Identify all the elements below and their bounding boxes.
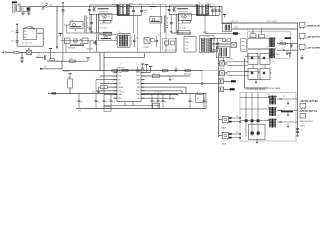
module outline lower right — [240, 92, 296, 141]
svg-text:KA431: KA431 — [222, 143, 227, 146]
svg-text:TH: TH — [30, 26, 33, 28]
svg-text:E 470u: E 470u — [120, 92, 125, 94]
module frame stage2 aux — [163, 39, 177, 51]
capacitor C53 dark — [251, 132, 254, 135]
diode D1 stage1 — [130, 6, 131, 7]
resistor R16 — [162, 69, 168, 71]
module box relay — [249, 124, 266, 139]
capacitor C7 bank — [157, 94, 159, 100]
svg-text:E4: E4 — [165, 102, 167, 104]
svg-text:S GN: S GN — [185, 49, 188, 51]
svg-text:CY3: CY3 — [11, 41, 14, 43]
resistor R3 stage1 — [103, 32, 112, 35]
wire T8 in — [240, 97, 269, 99]
capacitor C32 stage3 — [133, 34, 135, 47]
svg-text:TMR: TMR — [136, 94, 140, 96]
wire dcdc out2 — [277, 49, 298, 51]
wire CN4 out a — [227, 71, 248, 73]
wire CN8 out a — [232, 133, 240, 135]
capacitor E3 bank — [151, 94, 153, 100]
wire U1 row4 nest — [145, 90, 183, 92]
resistor R18a — [223, 39, 226, 42]
module U8 primary box stage3 — [99, 34, 117, 40]
wire U11 drop a — [65, 44, 67, 53]
svg-text:+12V DC OUT 8A: +12V DC OUT 8A — [299, 100, 318, 103]
wire stage3 vert b — [103, 52, 105, 93]
capacitor C8 — [175, 67, 177, 70]
wire T9 out — [277, 110, 298, 112]
connector CON2 remote — [2, 52, 4, 54]
wire grid in1 — [245, 55, 261, 57]
svg-text:UVP: UVP — [136, 79, 140, 81]
svg-text:X1: X1 — [101, 87, 103, 89]
power bar T2 — [142, 64, 144, 67]
wire stage3 right vert — [175, 38, 177, 53]
inductor L5 hatched — [241, 39, 246, 52]
transistor Q1 stage1 — [93, 7, 95, 12]
capacitor C4 — [20, 56, 23, 58]
connector P5b box — [300, 103, 306, 108]
svg-text:TL: TL — [38, 54, 40, 56]
svg-text:C5: C5 — [81, 102, 83, 104]
wire CN7 out a — [232, 117, 240, 119]
svg-text:R41: R41 — [236, 132, 239, 134]
connector CN7 cluster — [222, 116, 228, 122]
resistor R31 — [258, 34, 264, 38]
ground G3 — [21, 59, 23, 61]
inductor L4 bar stage3 — [101, 37, 112, 40]
wire grid link a — [252, 65, 254, 69]
diode D11 pair dark — [285, 37, 291, 39]
switch SW3 box — [231, 43, 237, 48]
ground G5 — [255, 80, 257, 83]
wire T9 in — [240, 108, 269, 110]
svg-text:Q6: Q6 — [250, 32, 252, 34]
inductor L1 bar stage1 — [98, 7, 109, 10]
wire T11 in — [240, 120, 269, 122]
resistor RL2 — [68, 79, 73, 88]
svg-text:E 1000u/10V: E 1000u/10V — [92, 92, 100, 94]
module box REG4 — [260, 69, 270, 80]
svg-text:D13: D13 — [283, 107, 286, 109]
svg-text:SB560: SB560 — [128, 4, 132, 6]
capacitor CX1 line filter — [17, 5, 20, 11]
capacitor C12 stage1 — [132, 7, 134, 33]
transformer T3 — [118, 34, 131, 48]
connector P2 — [299, 22, 305, 27]
svg-text:- - 12V RETURN SENSE - -: - - 12V RETURN SENSE - - — [244, 89, 268, 91]
svg-text:250V: 250V — [49, 4, 52, 6]
wire U1 left pin2 — [100, 75, 114, 77]
optocoupler U2 frame stage1 — [99, 14, 112, 21]
node T1 sec dots — [128, 5, 131, 8]
svg-text:C60: C60 — [272, 62, 275, 64]
capacitor C26 stage2 — [170, 14, 172, 29]
svg-text:R21: R21 — [158, 35, 161, 37]
svg-text:100n: 100n — [139, 4, 142, 6]
resistor R25 bank box — [196, 95, 204, 103]
svg-text:CY: CY — [56, 10, 59, 12]
svg-text:R44: R44 — [44, 66, 47, 68]
svg-text:VDD: VDD — [118, 72, 122, 74]
capacitor C10 stage1 — [88, 8, 91, 10]
wire rail +12V — [227, 22, 298, 24]
svg-text:16: 16 — [120, 63, 122, 65]
transformer T8 — [269, 96, 271, 105]
capacitor C1 pair — [16, 30, 19, 32]
svg-text:D FB: D FB — [185, 45, 188, 47]
wire U1 pin VCC — [145, 71, 151, 73]
svg-text:OPP: OPP — [136, 76, 140, 78]
resistor R21 at U1 — [100, 85, 107, 88]
wire dcdc in1 — [248, 37, 268, 39]
ground G8 — [287, 101, 289, 104]
diode D6 stage2 — [184, 14, 186, 17]
wire T11 out — [277, 121, 298, 123]
wire psons ext — [40, 51, 94, 53]
module U5 primary box stage2 — [169, 5, 197, 15]
capacitor C24 stage2 — [218, 7, 220, 16]
svg-text:FAN CONTROL: FAN CONTROL — [300, 120, 313, 123]
svg-text:+5VSB 2A RTN: +5VSB 2A RTN — [306, 25, 320, 28]
inductor L2 stage1 — [150, 5, 155, 8]
wire CN3 out a — [227, 61, 248, 63]
wire stage2-stage4 link — [175, 7, 177, 14]
module U5A bias box stage2 — [150, 17, 162, 24]
wire stage2 fb vert b — [177, 14, 179, 33]
resistor RL1 — [152, 74, 159, 77]
resistor R7 stage2 — [177, 31, 190, 35]
svg-text:R9 1k: R9 1k — [179, 23, 183, 25]
transformer T2 aux winding — [163, 16, 165, 33]
connector P7 small — [300, 113, 306, 118]
wire stage2 sec bottom — [209, 15, 220, 17]
wire dcdc out1 — [277, 43, 298, 45]
wire stage3 bottom link — [104, 57, 145, 59]
node T4 output dots — [212, 39, 215, 42]
ground G11 — [297, 133, 299, 136]
svg-text:LM7812 REG: LM7812 REG — [270, 54, 280, 56]
svg-text:C3 330u 200V: C3 330u 200V — [22, 42, 33, 44]
resistor R30 — [250, 34, 256, 38]
wire PS-ON rail1 — [47, 60, 88, 62]
svg-text:T2: T2 — [198, 2, 200, 4]
svg-text:PC817: PC817 — [144, 47, 150, 49]
resistor R12 — [50, 59, 55, 61]
switch SW2 box — [26, 50, 31, 54]
wire rail12 stub — [222, 22, 227, 24]
capacitor C6 bank — [110, 94, 112, 100]
transistor Q4 stage3 circle — [151, 38, 155, 42]
power bar +5V tap — [69, 74, 71, 77]
connector arrow left — [48, 93, 49, 94]
svg-text:PGO: PGO — [136, 91, 140, 93]
svg-text:FB 24V SENSE: FB 24V SENSE — [269, 88, 282, 90]
svg-text:T3: T3 — [119, 32, 121, 34]
svg-text:D12: D12 — [283, 96, 286, 98]
svg-text:T7: T7 — [266, 46, 268, 48]
wire right bus mid — [218, 53, 220, 137]
svg-text:R20: R20 — [165, 45, 168, 47]
resistor R13 on rail — [69, 60, 75, 62]
svg-text:Q8: Q8 — [196, 98, 198, 100]
svg-text:R40: R40 — [236, 116, 239, 118]
svg-text:PC817: PC817 — [220, 68, 225, 70]
ground G7 — [97, 90, 99, 92]
svg-text:U4 TL431: U4 TL431 — [100, 28, 107, 30]
capacitor C15 stage1 — [89, 14, 91, 33]
capacitor C35 standby — [216, 38, 218, 52]
transformer T10 boxed on rail — [222, 24, 231, 32]
svg-text:SB560: SB560 — [207, 4, 211, 6]
svg-text:E1: E1 — [98, 102, 100, 104]
wire dcdc drop d — [244, 58, 246, 88]
power bar standby top — [224, 15, 226, 18]
module U11 bias cluster stage3 — [65, 38, 71, 44]
optocoupler U6 frame stage2 — [179, 14, 192, 21]
svg-text:47uF/50V: 47uF/50V — [184, 73, 192, 75]
svg-text:F1 T5A: F1 T5A — [42, 2, 49, 5]
svg-text:T4: T4 — [203, 36, 205, 38]
svg-text:DC-DC CONV: DC-DC CONV — [266, 21, 278, 23]
transformer T1 — [116, 4, 118, 15]
wire U1 left pin5 — [107, 86, 113, 88]
fuse F1 — [42, 6, 43, 7]
connector CN4 cluster — [220, 71, 225, 76]
resistor R18b — [227, 39, 230, 42]
capacitor CY1 dark — [27, 7, 30, 10]
capacitor E4 bank — [162, 94, 164, 100]
wire AC line to fuse — [30, 6, 42, 8]
transistor Q2 stage2 — [172, 7, 174, 12]
inductor L3 bar stage2 — [177, 7, 188, 10]
svg-text:1000u: 1000u — [143, 10, 147, 12]
diode D7 stage3 — [105, 36, 108, 39]
transformer T11 — [269, 119, 271, 128]
svg-text:E 2200u/10V: E 2200u/10V — [154, 92, 162, 94]
wire U1 row7 nest — [169, 94, 171, 101]
transformer T5 boxed standby — [217, 46, 231, 57]
transistor Q3 stage3 — [94, 40, 96, 45]
wire CN4 out b — [227, 74, 248, 76]
connector P4 — [299, 44, 305, 49]
earth E2 arrow — [16, 24, 19, 26]
wire bridge loop — [42, 29, 44, 46]
wire bottom rail y70 — [62, 70, 202, 72]
wire lowright drop a — [245, 92, 247, 136]
svg-text:Q6: Q6 — [251, 36, 253, 38]
svg-text:+24V 5A RTN: +24V 5A RTN — [306, 36, 320, 39]
wire stage2 fb bottom — [171, 32, 191, 34]
wire CN7 out b — [232, 121, 240, 123]
transformer T2 — [195, 4, 197, 15]
wire U1 left pin4 — [100, 82, 114, 84]
svg-text:C32: C32 — [135, 38, 138, 40]
svg-text:BD1: BD1 — [24, 34, 27, 36]
capacitor CY2 — [62, 9, 65, 11]
svg-text:T8: T8 — [267, 94, 269, 96]
capacitor E5 bank — [203, 94, 205, 100]
wire bridge out right — [37, 32, 43, 34]
svg-text:R13: R13 — [70, 58, 73, 60]
svg-text:5VSB: 5VSB — [229, 58, 233, 60]
wire rail +5V — [232, 28, 298, 30]
wire U1 left pin6 — [96, 90, 114, 92]
svg-text:U1 ATX-SV: U1 ATX-SV — [116, 67, 125, 70]
wire stage3 vert a — [99, 52, 101, 70]
node stage3 aux dots — [79, 38, 82, 41]
resistor R15 — [122, 69, 128, 71]
wire cap bank gnd rail — [76, 108, 206, 110]
svg-text:C7: C7 — [160, 102, 162, 104]
wire bank right vert — [205, 94, 207, 109]
ground G10 — [256, 140, 258, 143]
transistor Q5 — [43, 55, 45, 60]
wire U2A in — [64, 24, 70, 26]
svg-text:U10: U10 — [185, 39, 188, 41]
wire standby out bot — [210, 49, 217, 51]
svg-text:KA431: KA431 — [222, 127, 227, 130]
module frame line C — [165, 4, 167, 52]
connector CN8 cluster — [222, 132, 228, 138]
wire CN8 out b — [232, 137, 240, 139]
svg-text:VCC: VCC — [136, 72, 140, 74]
thermistor TH1 arc — [24, 27, 33, 29]
diode D12 — [280, 98, 281, 100]
transformer T1 aux winding — [84, 16, 86, 33]
node cluster entries — [239, 117, 241, 118]
svg-text:AC -: AC - — [24, 36, 28, 39]
diode D5 stage1 — [105, 14, 107, 17]
wire bus B+ vertical — [56, 7, 58, 47]
resistor R1 stage1 fb — [103, 20, 111, 23]
svg-text:R8 1k: R8 1k — [100, 23, 104, 25]
connector CN5 — [219, 79, 224, 84]
capacitor C54 dark — [257, 132, 260, 135]
resistor R32 — [280, 42, 286, 44]
svg-text:C11: C11 — [107, 16, 110, 18]
svg-text:470u: 470u — [212, 5, 215, 7]
svg-text:CX1: CX1 — [18, 3, 21, 5]
module box REG2 — [260, 54, 270, 65]
svg-text:U7 TL431: U7 TL431 — [179, 28, 186, 30]
wire U11 row — [61, 40, 95, 42]
wire stage3 bottom — [94, 51, 176, 53]
module box REG3 — [248, 69, 258, 80]
wire aux rail y33.5 — [205, 33, 240, 35]
svg-text:V5: V5 — [118, 79, 120, 81]
ground at CX1 — [22, 12, 24, 14]
resistor R5 stage2 fb — [183, 20, 191, 23]
svg-text:FPO: FPO — [118, 98, 122, 100]
wire stage1 fb bottom — [92, 32, 112, 34]
svg-text:R1: R1 — [103, 21, 105, 23]
capacitor C50 dark — [245, 119, 248, 122]
diode D13 — [280, 110, 281, 112]
ic U1 supervisor — [117, 70, 141, 101]
capacitor E1 bank — [95, 94, 97, 100]
capacitor C20 stage2 — [168, 8, 171, 10]
capacitor C15 stage1 — [91, 14, 93, 29]
svg-text:9: 9 — [136, 63, 137, 65]
power bar VCC1 — [146, 65, 148, 73]
svg-text:+12V +5V: +12V +5V — [230, 21, 238, 23]
svg-text:J2: J2 — [297, 19, 299, 21]
module frame line A — [137, 16, 139, 52]
transformer T7 — [268, 48, 270, 58]
svg-text:PS-ON: PS-ON — [64, 71, 70, 73]
wire stage1 fb vert a — [96, 14, 98, 33]
capacitor C57 small box — [153, 103, 160, 108]
wire RL2 down — [69, 76, 71, 79]
wire U1 left pin3 — [96, 79, 114, 81]
svg-text:AC +: AC + — [24, 30, 28, 33]
capacitor C51 dark — [251, 119, 254, 122]
svg-text:C55: C55 — [300, 130, 303, 132]
node row1 tee — [170, 76, 171, 77]
earth E1 arrow — [62, 2, 65, 4]
power bar +5VSB — [50, 49, 52, 52]
capacitor C40 — [290, 44, 292, 48]
wire U1 row5 nest — [145, 94, 179, 96]
module box REG1 — [248, 54, 258, 65]
svg-text:R32: R32 — [281, 41, 284, 43]
capacitor C8 bank — [189, 94, 191, 100]
svg-text:SW1: SW1 — [42, 9, 46, 11]
wire stage1 sec bottom — [129, 15, 141, 17]
capacitor C55 — [296, 127, 299, 129]
wire U11 drop b — [89, 41, 91, 53]
node PS-ON junction — [21, 52, 22, 53]
wire lowright drop b — [251, 92, 253, 136]
svg-text:J9 AUX: J9 AUX — [300, 125, 306, 128]
svg-text:C45: C45 — [172, 79, 175, 81]
module DCDC outline — [247, 32, 290, 58]
capacitor E2 bank — [103, 94, 105, 100]
wire CN3 out b — [227, 64, 248, 66]
ground G9b — [287, 124, 289, 127]
wire cap bank top rail R — [141, 93, 206, 95]
label rail taps2 — [243, 23, 244, 24]
wire right bus top — [221, 7, 223, 24]
resistor R14 — [112, 69, 118, 71]
svg-text:L2: L2 — [150, 8, 152, 10]
svg-text:D10: D10 — [281, 48, 284, 50]
diode D14 — [280, 121, 281, 123]
svg-text:C45: C45 — [163, 72, 166, 74]
svg-text:T1: T1 — [119, 2, 121, 4]
connector P3 — [299, 33, 305, 38]
svg-text:T6: T6 — [266, 36, 268, 38]
wire U1 left pin7 — [104, 94, 114, 96]
svg-text:+12V 1A RTN: +12V 1A RTN — [306, 47, 320, 50]
wire U1 row2 — [145, 82, 219, 84]
svg-text:16V: 16V — [143, 12, 146, 14]
capacitor C56 — [296, 130, 299, 132]
resistor R10 — [14, 51, 19, 53]
svg-text:CY2: CY2 — [11, 31, 14, 33]
wire grid in2 — [245, 70, 261, 72]
svg-text:PGI: PGI — [137, 87, 140, 89]
wire T8 out — [277, 98, 298, 100]
power bar VCC2 — [150, 66, 152, 72]
node top rail / bulk bus — [56, 6, 57, 7]
capacitor C30 stage3 — [96, 34, 98, 52]
module frame line B — [160, 4, 162, 52]
wire U1 row3 nest — [145, 86, 187, 88]
wire stage2 fb vert a — [175, 14, 177, 33]
svg-text:T9: T9 — [267, 106, 269, 108]
